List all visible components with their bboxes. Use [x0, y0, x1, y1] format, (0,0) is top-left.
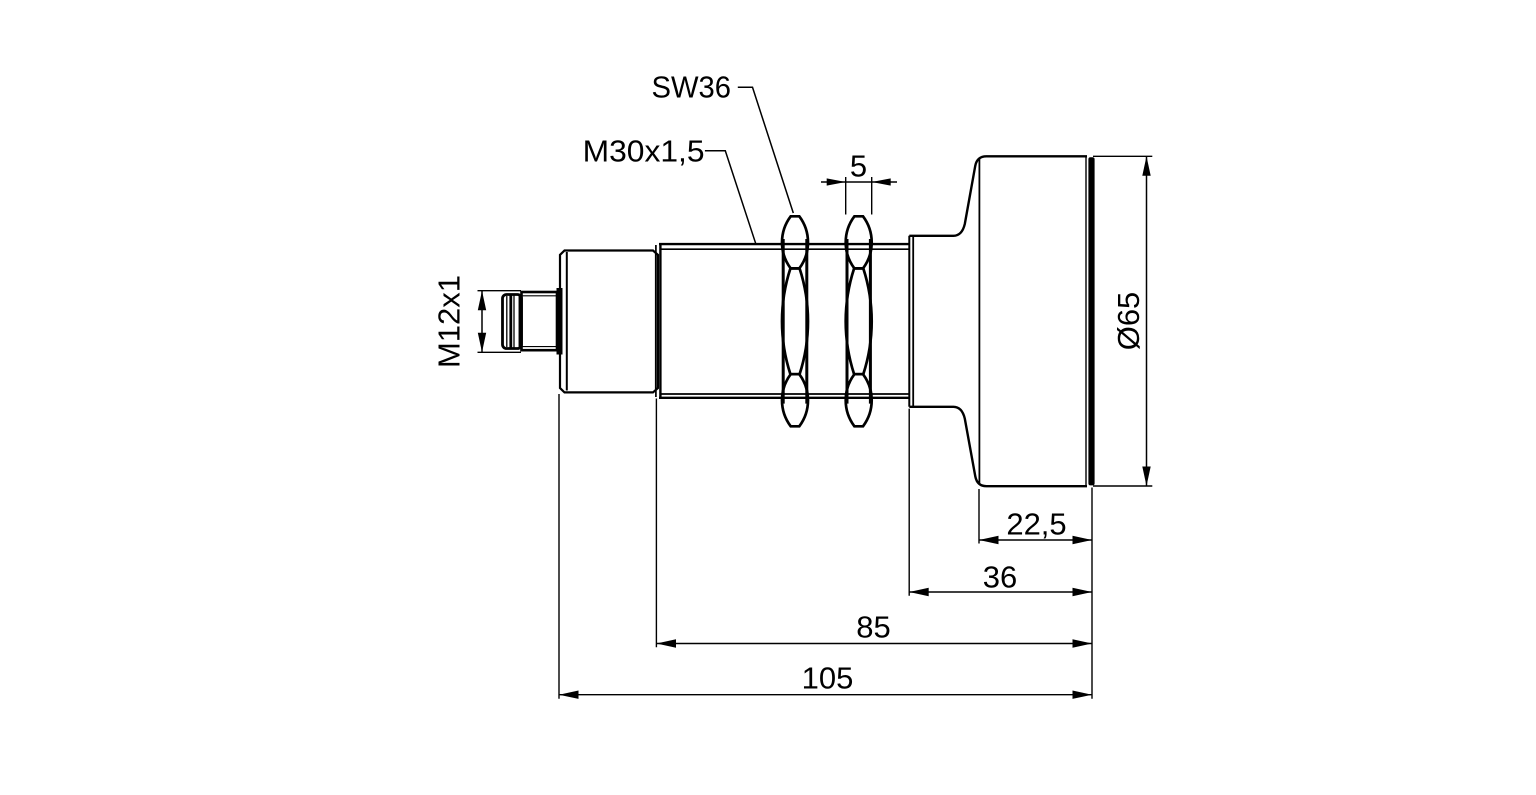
collar: [909, 236, 913, 407]
dimension 5 arrows: [827, 178, 846, 185]
dimension Ø65 line: [1146, 156, 1148, 486]
dimension 22,5 line: [979, 539, 1092, 541]
sensing face black band: [1088, 157, 1094, 485]
dimension M12x1 arrows: [478, 291, 486, 311]
dimension Ø65 extension lines: [1093, 156, 1152, 486]
dimension 85 extension line: [655, 399, 657, 648]
M30 threaded barrel: [656, 244, 909, 398]
transducer head bottom contour (cone + bottom edge): [909, 407, 1087, 486]
svg-text:5: 5: [850, 149, 867, 184]
dimension 105 arrows: [559, 691, 579, 699]
dimension 36 line: [909, 591, 1092, 593]
leader SW36: [738, 87, 794, 213]
svg-text:Ø65: Ø65: [1111, 292, 1146, 351]
svg-text:SW36: SW36: [652, 70, 732, 105]
transducer head top contour (cone + top edge): [909, 156, 1087, 236]
dimension 36 extension line: [908, 409, 910, 596]
connector flange (black band): [557, 288, 563, 355]
svg-text:M30x1,5: M30x1,5: [583, 134, 705, 169]
svg-text:M12x1: M12x1: [432, 275, 467, 368]
dimension 5 extension lines: [846, 177, 872, 215]
dimension 5 line: [821, 181, 897, 183]
dimension Ø65 arrows: [1142, 156, 1150, 176]
dimension 22,5 arrows: [979, 536, 999, 544]
svg-text:22,5: 22,5: [1006, 507, 1066, 542]
dimension 36 arrows: [909, 588, 929, 596]
svg-text:85: 85: [856, 610, 890, 645]
dimension 105 line: [559, 694, 1092, 696]
M12 connector barrel: [522, 292, 558, 350]
lock nut 2: [846, 216, 872, 426]
dimension 85 line: [657, 643, 1093, 645]
svg-text:36: 36: [983, 559, 1017, 594]
dimension M12x1 line: [481, 291, 483, 353]
dimension M12x1 extension lines: [478, 291, 522, 353]
dimension 105 extension line: [558, 394, 560, 699]
rear housing body: [560, 251, 658, 393]
dimension 85 arrows: [657, 639, 677, 647]
lock nut 1 (SW36): [782, 216, 808, 426]
svg-text:105: 105: [802, 660, 854, 695]
transducer head right face line: [1085, 158, 1087, 486]
transducer head left face line: [978, 159, 980, 485]
dimension 22,5 extension lines: [979, 488, 1092, 699]
leader M30x1,5: [705, 151, 756, 243]
M12 connector tip cap: [503, 295, 522, 349]
